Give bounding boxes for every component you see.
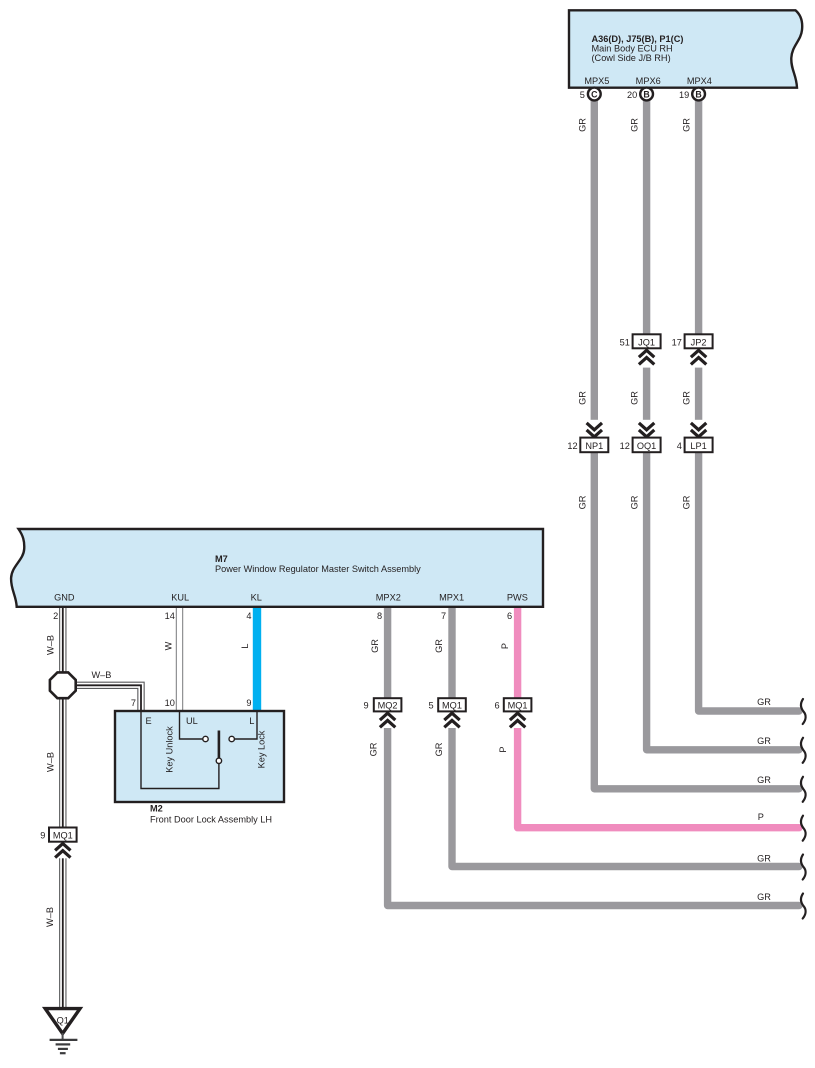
Key Lock contact circle: [229, 736, 234, 741]
connector chevrons down above NP1: [584, 420, 604, 438]
junction connector JP2 pin 17: [672, 334, 713, 348]
svg-text:MPX5: MPX5: [584, 76, 609, 86]
wire P (pink) from M7 PWS via MQ1 to right edge: [518, 604, 799, 828]
M2 internal wire from E pin to switch pivot: [141, 711, 219, 789]
wire W from M7 KUL to M2 pin 10: [176, 604, 183, 715]
connector chevrons up below MQ2: [378, 712, 398, 729]
svg-text:B: B: [643, 89, 649, 99]
connector chevrons down above LP1: [689, 420, 709, 438]
connector chevrons up below MQ1 (5): [442, 712, 462, 729]
connector MQ1 pin 5: [428, 698, 465, 711]
svg-text:Key Unlock: Key Unlock: [164, 726, 174, 773]
M2 internal wire from L pin to Key Lock contact: [234, 711, 257, 739]
connector chevrons up below MQ1 (9 left): [53, 842, 73, 859]
svg-text:M2: M2: [150, 804, 163, 814]
svg-text:MQ1: MQ1: [508, 701, 528, 711]
svg-text:P: P: [500, 643, 510, 649]
svg-text:W–B: W–B: [45, 635, 55, 655]
connector OQ1 pin 12: [620, 438, 661, 453]
svg-text:(Cowl Side J/B RH): (Cowl Side J/B RH): [592, 53, 671, 63]
svg-text:19: 19: [679, 90, 689, 100]
svg-text:Key Lock: Key Lock: [257, 730, 267, 768]
svg-text:W–B: W–B: [45, 907, 55, 927]
M2 box Front Door Lock Assembly LH: [115, 711, 284, 802]
svg-text:GR: GR: [757, 775, 771, 785]
ECU pin 5 circle C: [580, 88, 601, 101]
connector NP1 pin 12: [567, 438, 608, 453]
svg-text:9: 9: [363, 701, 368, 711]
svg-text:4: 4: [246, 611, 251, 621]
svg-text:E: E: [146, 716, 152, 726]
wire GR from ECU pin 5(C) MPX5 via NP1 to right edge: [594, 100, 799, 789]
svg-text:L: L: [240, 643, 250, 648]
svg-text:GR: GR: [434, 742, 444, 756]
svg-text:GR: GR: [682, 391, 692, 405]
svg-text:GR: GR: [682, 118, 692, 132]
svg-text:W–B: W–B: [92, 670, 112, 680]
ground triangle Q1: [45, 1009, 80, 1034]
svg-text:8: 8: [377, 611, 382, 621]
svg-text:GR: GR: [630, 495, 640, 509]
svg-text:14: 14: [165, 611, 175, 621]
svg-text:A36(D), J75(B), P1(C): A36(D), J75(B), P1(C): [592, 34, 684, 44]
connector chevrons up below JP2: [689, 349, 709, 368]
svg-text:PWS: PWS: [507, 593, 528, 603]
svg-text:GR: GR: [434, 639, 444, 653]
svg-text:MQ1: MQ1: [53, 831, 73, 841]
wire GR from M7 MPX1 via MQ1 to right edge: [452, 604, 799, 867]
svg-text:MPX4: MPX4: [687, 76, 712, 86]
svg-text:OQ1: OQ1: [637, 441, 656, 451]
svg-text:KL: KL: [251, 593, 262, 603]
connector MQ2 pin 9: [363, 698, 401, 711]
wire L (blue) from M7 KL to M2 pin 9: [253, 604, 261, 715]
wire break symbol PWS line: [801, 816, 806, 841]
svg-text:GR: GR: [757, 892, 771, 902]
svg-text:MPX1: MPX1: [439, 593, 464, 603]
svg-text:GR: GR: [577, 118, 587, 132]
connector chevrons down above OQ1: [637, 420, 657, 438]
svg-text:10: 10: [165, 698, 175, 708]
svg-text:9: 9: [40, 831, 45, 841]
svg-text:MQ2: MQ2: [378, 701, 398, 711]
svg-text:W: W: [163, 641, 173, 650]
connector LP1 pin 4: [677, 438, 713, 453]
svg-text:9: 9: [246, 698, 251, 708]
wire GR from M7 MPX2 via MQ2 to right edge: [388, 604, 799, 906]
wire break symbol NP1 line: [801, 777, 806, 802]
wire break symbol MQ2 line: [801, 894, 806, 919]
wire break symbol LP1 line: [801, 699, 806, 724]
svg-text:MQ1: MQ1: [442, 701, 462, 711]
svg-text:JP2: JP2: [691, 338, 707, 348]
svg-text:6: 6: [507, 611, 512, 621]
Key Unlock contact circle: [203, 736, 208, 741]
svg-text:6: 6: [494, 701, 499, 711]
svg-text:5: 5: [428, 701, 433, 711]
svg-text:Power Window Regulator Master: Power Window Regulator Master Switch Ass…: [215, 564, 421, 574]
svg-text:Main Body ECU RH: Main Body ECU RH: [592, 43, 673, 53]
svg-text:UL: UL: [186, 716, 198, 726]
svg-text:GR: GR: [577, 391, 587, 405]
connector MQ1 pin 6: [494, 698, 531, 711]
ECU pin 19 circle B: [679, 88, 705, 101]
svg-text:GR: GR: [577, 495, 587, 509]
svg-text:51: 51: [620, 338, 630, 348]
wire W-B branch from splice octagon to M2 pin 7 (E): [74, 685, 141, 714]
switch lever: [218, 731, 221, 759]
svg-text:GR: GR: [630, 118, 640, 132]
svg-text:GND: GND: [54, 593, 75, 603]
svg-text:P: P: [758, 812, 764, 822]
wire break symbol OQ1 line: [801, 738, 806, 763]
svg-text:GR: GR: [369, 742, 379, 756]
wire GR from ECU pin 20(B) MPX6 via JQ1 and OQ1 to right edge: [647, 100, 799, 750]
wire W-B from M7 GND down to ground Q1 (white wire with black stripe): [59, 604, 66, 1012]
connector chevrons up below MQ1 (6): [508, 712, 528, 729]
svg-text:JQ1: JQ1: [638, 338, 655, 348]
svg-text:KUL: KUL: [171, 593, 189, 603]
svg-text:MPX6: MPX6: [636, 76, 661, 86]
svg-text:Front Door Lock Assembly LH: Front Door Lock Assembly LH: [150, 815, 272, 825]
svg-text:GR: GR: [757, 697, 771, 707]
svg-text:NP1: NP1: [585, 441, 603, 451]
svg-text:W–B: W–B: [45, 752, 55, 772]
ECU pin 20 circle B: [627, 88, 653, 101]
svg-text:17: 17: [672, 338, 682, 348]
svg-text:12: 12: [620, 441, 630, 451]
ground symbol: [50, 1033, 78, 1053]
svg-text:GR: GR: [757, 736, 771, 746]
M7 box Power Window Regulator Master Switch Assembly: [11, 529, 543, 607]
ECU box A36(D), J75(B), P1(C) Main Body ECU RH: [569, 10, 802, 87]
svg-text:C: C: [591, 89, 598, 99]
M2 internal wire from UL pin to Key Unlock contact: [180, 711, 203, 739]
svg-text:7: 7: [441, 611, 446, 621]
junction connector JQ1 pin 51: [620, 334, 661, 348]
svg-text:12: 12: [567, 441, 577, 451]
wire GR from ECU pin 19(B) MPX4 via JP2 and LP1 to right edge: [699, 100, 799, 711]
svg-text:Q1: Q1: [57, 1015, 69, 1025]
svg-text:GR: GR: [370, 639, 380, 653]
splice octagon junction on W-B wire: [50, 672, 76, 698]
svg-text:GR: GR: [757, 854, 771, 864]
svg-text:LP1: LP1: [690, 441, 706, 451]
svg-text:20: 20: [627, 90, 637, 100]
svg-text:B: B: [695, 89, 701, 99]
svg-text:MPX2: MPX2: [376, 593, 401, 603]
svg-text:GR: GR: [630, 391, 640, 405]
svg-text:P: P: [498, 746, 508, 752]
svg-text:GR: GR: [682, 495, 692, 509]
connector MQ1 pin 9 (ground wire): [40, 828, 76, 842]
svg-text:2: 2: [53, 611, 58, 621]
svg-text:M7: M7: [215, 554, 228, 564]
M2 caption: [150, 804, 272, 825]
svg-text:4: 4: [677, 441, 682, 451]
switch pivot contact circle: [216, 758, 221, 763]
svg-text:L: L: [249, 716, 254, 726]
connector chevrons up below JQ1: [637, 349, 657, 368]
svg-text:7: 7: [131, 698, 136, 708]
wire break symbol MQ1 line: [801, 855, 806, 880]
svg-text:5: 5: [580, 90, 585, 100]
